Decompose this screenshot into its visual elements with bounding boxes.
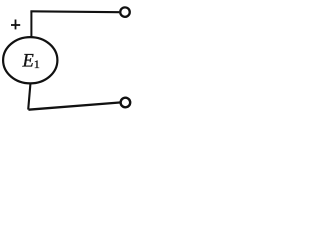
svg-text:1: 1: [34, 57, 40, 71]
label E1: [22, 52, 40, 72]
svg-text:E: E: [22, 52, 34, 72]
wire bottom stub from source to bottom rail: [28, 84, 30, 110]
voltage source E1 (circle): [3, 37, 57, 83]
wire top horizontal to terminal: [30, 10, 119, 13]
terminal top (open circle node): [120, 7, 130, 17]
terminal bottom (open circle node): [121, 98, 131, 108]
wire top stub from source to top rail: [30, 11, 32, 37]
wire bottom horizontal to terminal: [28, 103, 119, 110]
polarity + of source E1: [11, 20, 20, 30]
